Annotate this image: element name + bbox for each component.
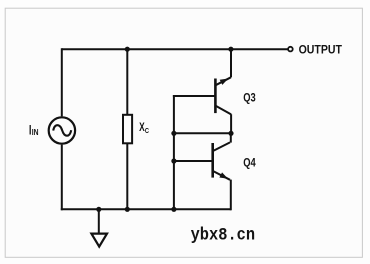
wire: Q4 emitter vertical to bottom rail xyxy=(230,180,232,211)
svg-text:Q3: Q3 xyxy=(243,90,256,104)
current source I1 (IIN) xyxy=(49,117,75,143)
wire: bases vertical bus xyxy=(173,95,175,210)
wire: top rail from source to output xyxy=(62,48,288,50)
wire: left branch lower (source to bottom rail) xyxy=(61,145,63,211)
svg-text:OUTPUT: OUTPUT xyxy=(299,43,343,57)
reactance X_C (box symbol) xyxy=(123,115,132,144)
wire: bottom rail xyxy=(61,208,231,210)
transistor Q3 xyxy=(215,76,231,114)
wire: Q3 base lead xyxy=(173,95,216,97)
wire: collector tie line xyxy=(174,132,231,134)
label XC xyxy=(139,120,149,135)
svg-text:X: X xyxy=(139,120,145,134)
wire: Q3 emitter vertical to top rail xyxy=(230,48,232,77)
wire: Xc branch lower xyxy=(126,143,128,209)
junction node: top rail / Xc xyxy=(125,47,130,52)
wire: Q4 base lead xyxy=(173,160,213,162)
junction node: collectors tie point xyxy=(228,131,233,136)
junction node: bases bus / collector tie xyxy=(171,131,176,136)
wire: Q4 collector vertical to tie node xyxy=(230,133,232,142)
ground xyxy=(91,234,107,247)
junction node: bottom rail / ground xyxy=(96,207,101,212)
svg-text:C: C xyxy=(145,126,149,135)
output terminal xyxy=(288,47,293,52)
wire: left branch upper (source to top rail) xyxy=(61,48,63,116)
wire: Xc branch upper xyxy=(126,48,128,115)
wire: ground stem xyxy=(98,209,100,234)
label IIN xyxy=(28,121,39,137)
svg-text:ybx8.cn: ybx8.cn xyxy=(191,225,256,245)
wire: Q3 collector vertical to tie node xyxy=(230,114,232,133)
junction node: bottom rail / bases bus xyxy=(171,207,176,212)
junction node: top rail / Q3 emitter xyxy=(228,47,233,52)
svg-text:Q4: Q4 xyxy=(243,155,256,169)
junction node: bottom rail / Xc xyxy=(125,207,130,212)
transistor Q4 xyxy=(213,142,230,181)
svg-text:IN: IN xyxy=(32,128,39,137)
junction node: bases bus / Q4 base lead xyxy=(171,158,176,163)
